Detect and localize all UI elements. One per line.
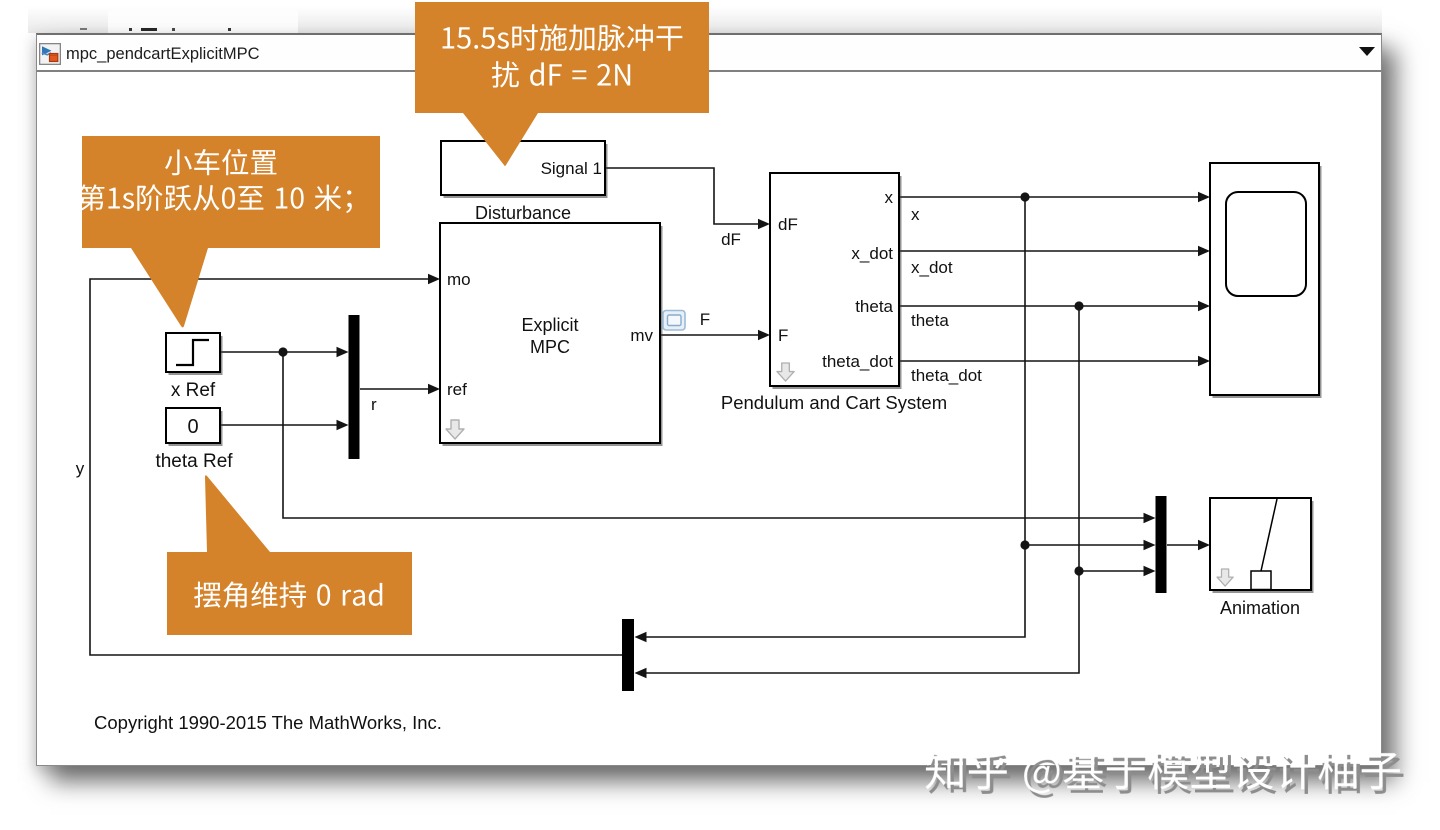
arrowhead into ref [428,384,440,394]
wire: theta out -> scope in3 [899,305,1206,307]
svg-text:theta_dot: theta_dot [822,352,893,371]
svg-text:mo: mo [447,270,471,289]
wire: theta branch down [1078,306,1080,571]
junction dot: theta anim [1074,566,1083,575]
title bar [37,35,1381,72]
signal logging badge on mv wire [663,311,685,331]
svg-text:theta: theta [855,297,893,316]
callout: 小车位置 第1s阶跃从0至 10 米； [79,136,380,328]
svg-text:dF: dF [721,230,741,249]
arrowhead into F [758,330,770,340]
block: Animation [1210,498,1314,593]
block: Explicit MPC controller [440,223,663,446]
block: Disturbance (Signal Builder) [441,141,608,198]
arrowhead anim mux in2 [1144,540,1156,550]
wire: feedback y loop (bottom mux out -> mo input) [90,279,622,655]
wire: theta_dot out -> scope in4 [899,360,1206,362]
junction dot: x out [1020,192,1029,201]
wire: x Ref out -> mux r in1 [220,351,345,353]
wire: x out -> scope in1 [899,196,1206,198]
svg-text:x_dot: x_dot [911,258,953,277]
svg-text:theta_dot: theta_dot [911,366,982,385]
watermark: 知乎 @基于模型设计柚子 [925,750,1403,798]
block: x Ref (step) [166,333,223,375]
svg-text:F: F [778,326,788,345]
svg-text:theta: theta [911,311,949,330]
junction dot: x anim [1020,540,1029,549]
svg-text:0: 0 [187,416,198,438]
svg-text:r: r [371,395,377,414]
wire: x branch down [1024,197,1026,545]
svg-text:y: y [76,459,85,478]
callout: 15.5s时施加脉冲干扰 dF = 2N [415,2,709,166]
wire: Signal1 out -> dF input [605,168,766,224]
svg-text:Explicit: Explicit [521,315,578,335]
block: Pendulum and Cart System [770,173,902,389]
wire: animation mux out -> Animation [1167,544,1206,546]
svg-text:ref: ref [447,380,467,399]
arrowhead into Animation [1198,540,1210,550]
window title [66,45,260,64]
wire: theta Ref out -> mux r in2 [220,424,345,426]
simulink file icon [39,43,61,65]
svg-text:MPC: MPC [530,337,570,357]
svg-text:x_dot: x_dot [851,244,893,263]
wire: theta branch -> animation mux in3 [1079,570,1152,572]
mux animation inputs [1156,496,1167,593]
mux feedback (bottom, inputs from right) [622,619,634,691]
wire: x branch down to bottom mux in1 [638,545,1025,637]
wire: r branch down to animation mux in1 [283,352,1152,518]
svg-text:Copyright 1990-2015 The MathWo: Copyright 1990-2015 The MathWorks, Inc. [94,712,442,733]
arrowhead scope in4 [1198,356,1210,366]
arrowhead anim mux in3 [1144,566,1156,576]
svg-text:Pendulum and Cart System: Pendulum and Cart System [721,392,947,413]
top strip of cropped browser tabs [28,6,1382,33]
wire: x branch -> animation mux in2 [1025,544,1152,546]
arrowhead scope in3 [1198,301,1210,311]
arrowhead into dF [758,219,770,229]
block: theta Ref (constant 0) [166,408,223,446]
svg-text:dF: dF [778,215,798,234]
svg-text:F: F [700,310,710,329]
arrowhead scope in2 [1198,246,1210,256]
arrowhead bottom mux in1 [635,632,647,642]
dropdown caret [1359,47,1375,56]
block: Scope [1210,163,1322,398]
arrowhead anim mux in1 [1144,513,1156,523]
svg-text:x: x [911,205,920,224]
svg-text:Disturbance: Disturbance [475,203,571,223]
callout: 摆角维持 0 rad [167,475,412,635]
svg-text:Animation: Animation [1220,598,1300,618]
arrowhead bottom mux in2 [635,668,647,678]
arrowhead mux r in2 [337,420,349,430]
arrowhead scope in1 [1198,192,1210,202]
wire: mv out -> F input [660,334,766,336]
svg-text:theta Ref: theta Ref [155,451,233,472]
wire: theta branch down to bottom mux in2 [638,571,1079,673]
svg-text:mv: mv [630,326,653,345]
junction dot: theta out [1074,301,1083,310]
svg-text:x Ref: x Ref [171,380,216,401]
arrowhead into mo [428,274,440,284]
svg-text:Signal 1: Signal 1 [541,159,602,178]
cart icon [1251,571,1271,590]
arrowhead mux r in1 [337,347,349,357]
pendulum rod icon [1261,499,1277,571]
junction dot: x ref branch [278,347,287,356]
wire: x_dot out -> scope in2 [899,250,1206,252]
mux r (vertical black bar) [349,315,360,459]
svg-text:x: x [885,188,894,207]
wire: mux r out -> ref input [360,388,436,390]
